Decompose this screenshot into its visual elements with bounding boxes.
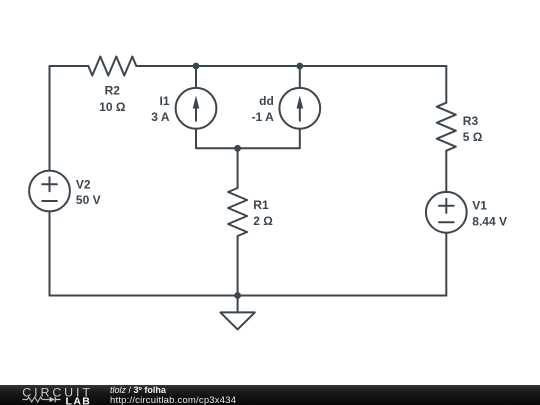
node junction top I1 [193, 63, 200, 70]
svg-text:R1: R1 [253, 198, 269, 212]
footer caption [110, 385, 166, 396]
wire I1 bottom [196, 129, 238, 149]
resistor R1 [228, 188, 247, 236]
svg-text:R3: R3 [463, 114, 479, 128]
wire top rail right of R2 [136, 65, 446, 67]
wire top-left and left rail upper [50, 66, 89, 171]
wire V1 to bottom rail [445, 233, 447, 296]
svg-text:dd: dd [259, 94, 274, 108]
wire node to R1 [237, 148, 239, 188]
node junction top dd [296, 63, 303, 70]
node junction bottom [234, 292, 241, 299]
footer bar [0, 385, 540, 405]
node junction mid [234, 145, 241, 152]
voltage source V2 [29, 171, 70, 212]
wire dd top tap [299, 66, 301, 88]
wire dd bottom [238, 129, 300, 149]
svg-text:8.44 V: 8.44 V [472, 215, 507, 229]
svg-text:R2: R2 [105, 84, 121, 98]
svg-text:2 Ω: 2 Ω [253, 214, 273, 228]
current source I1 [176, 88, 217, 129]
svg-text:LAB: LAB [66, 395, 92, 405]
ground [220, 312, 254, 329]
arrowhead dd [297, 96, 304, 109]
wire left rail lower [49, 211, 51, 295]
svg-text:50 V: 50 V [76, 193, 101, 207]
svg-text:I1: I1 [159, 94, 169, 108]
svg-text:-1 A: -1 A [252, 110, 275, 124]
svg-text:10 Ω: 10 Ω [99, 100, 126, 114]
wire R1 to bottom rail [237, 236, 239, 296]
wire R3 to V1 [445, 151, 447, 192]
svg-text:V1: V1 [472, 199, 487, 213]
wire right rail upper [445, 66, 447, 103]
voltage source V1 [426, 192, 467, 233]
wire ground stub [237, 296, 239, 313]
arrowhead I1 [193, 96, 200, 109]
resistor R2 [88, 57, 136, 76]
svg-text:V2: V2 [76, 177, 91, 191]
current source dd [279, 88, 320, 129]
wire bottom rail [50, 295, 447, 297]
resistor R3 [437, 103, 456, 151]
CircuitLab logo [0, 384, 105, 405]
wire I1 top tap [195, 66, 197, 88]
svg-text:3 A: 3 A [151, 110, 170, 124]
svg-text:5 Ω: 5 Ω [463, 130, 483, 144]
